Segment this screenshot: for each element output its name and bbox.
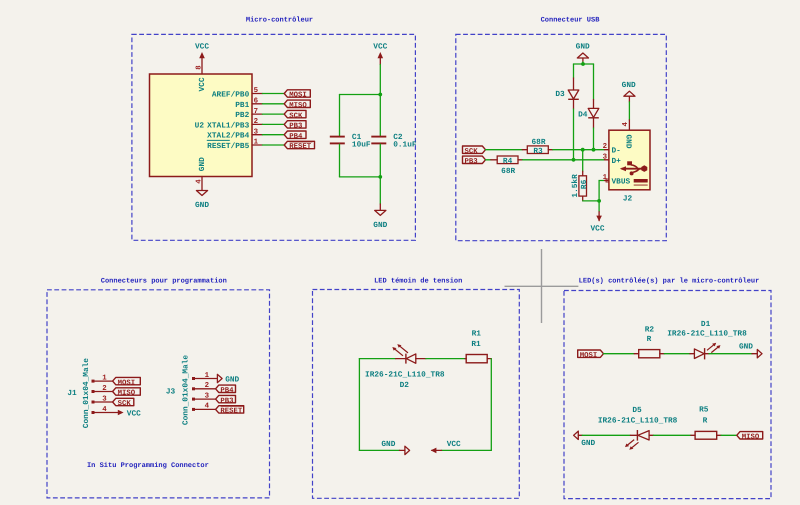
ground below U2	[195, 191, 209, 210]
J1 pin 1	[92, 374, 113, 382]
U2 pin 1 stub	[252, 144, 262, 146]
J1 pin 2	[92, 385, 113, 393]
svg-text:4: 4	[102, 406, 107, 414]
svg-text:4: 4	[622, 122, 630, 127]
wire right vertical	[490, 359, 492, 451]
svg-text:Conn_01x04_Male: Conn_01x04_Male	[181, 355, 190, 426]
wire R6 top	[582, 150, 584, 172]
svg-text:3: 3	[102, 395, 107, 403]
resistor R1	[465, 355, 491, 363]
svg-text:GND: GND	[624, 134, 633, 148]
J3 pin 2	[192, 382, 216, 390]
wire stub gnd	[582, 62, 584, 64]
wire C2 bottom	[379, 144, 381, 177]
svg-text:PB1: PB1	[235, 101, 249, 110]
wire bottom right to VCC	[442, 449, 492, 451]
global label MISO (J1)	[113, 388, 141, 398]
svg-text:MOSI: MOSI	[118, 379, 136, 387]
ground top of USB section	[576, 42, 590, 62]
wire GND to J2 pin4	[628, 102, 630, 120]
global label SCK	[463, 146, 486, 156]
section frame: LED(s) contrôlée(s) par le micro-contrôleur	[564, 291, 771, 499]
svg-text:3: 3	[205, 392, 210, 400]
LED D1	[690, 343, 721, 360]
wire C1 bottom	[339, 144, 341, 177]
wire D3 to D+ line	[573, 109, 575, 160]
junction D4/D-	[592, 148, 596, 152]
wire PB3 to R4	[486, 159, 491, 161]
svg-text:J1: J1	[67, 389, 77, 398]
U2 pin 3 stub	[252, 134, 262, 136]
svg-text:VCC: VCC	[447, 440, 461, 449]
wire down to D3	[573, 64, 575, 78]
svg-text:GND: GND	[381, 440, 395, 449]
svg-text:SCK: SCK	[465, 148, 479, 156]
wire D- line	[553, 149, 605, 151]
svg-text:PB3: PB3	[289, 123, 303, 131]
svg-text:AREF/PB0: AREF/PB0	[212, 91, 250, 100]
svg-text:D1: D1	[701, 320, 711, 329]
resistor R3	[522, 138, 552, 156]
global label RESET (J3)	[216, 406, 244, 416]
wire left vertical	[358, 359, 360, 451]
wire pin2 to PB3	[262, 123, 284, 125]
J1 pin 3	[92, 395, 113, 403]
J2 pin 4 stub	[628, 120, 630, 130]
svg-text:68R: 68R	[501, 167, 515, 176]
svg-text:U2: U2	[195, 121, 205, 130]
section frame: Connecteurs pour programmation	[47, 290, 270, 498]
global label PB3 (J3)	[216, 395, 236, 405]
wire SCK to R3	[486, 149, 523, 151]
resistor R2	[634, 350, 664, 358]
svg-text:4: 4	[196, 179, 204, 184]
wire pin7 to SCK	[262, 113, 284, 115]
junction at VCC/C2	[378, 93, 382, 97]
J1 pin 4	[92, 406, 121, 414]
svg-text:MOSI: MOSI	[289, 92, 307, 100]
U2 pin 8 stub	[201, 59, 203, 75]
svg-text:D3: D3	[555, 90, 565, 99]
junction at GND tee	[581, 62, 585, 66]
wire down to D4	[593, 64, 595, 100]
wire C1 top	[339, 95, 341, 136]
svg-text:Connecteurs pour programmation: Connecteurs pour programmation	[101, 277, 227, 286]
wire top left to D2	[359, 358, 395, 360]
global label PB4	[284, 131, 306, 141]
power VCC above U2	[195, 42, 209, 58]
global label SCK (J1)	[113, 398, 134, 408]
resistor R4	[491, 156, 523, 176]
U2 pin 6 stub	[252, 103, 262, 105]
global label PB4 (J3)	[216, 385, 236, 395]
svg-text:IR26-21C_L110_TR8: IR26-21C_L110_TR8	[598, 416, 678, 425]
ground bottom (triangle right)	[381, 440, 409, 454]
ground above J2	[622, 81, 636, 102]
U2 pin 2 stub	[252, 123, 262, 125]
svg-text:7: 7	[254, 108, 258, 116]
svg-text:MISO: MISO	[118, 390, 136, 398]
U2 pin name RESET/PB5 with overline	[207, 140, 250, 151]
wire MOSI to R2	[604, 353, 635, 355]
svg-text:3: 3	[603, 153, 608, 161]
svg-text:PB3: PB3	[220, 397, 234, 405]
svg-text:2: 2	[205, 382, 209, 390]
svg-text:R3: R3	[533, 147, 543, 156]
svg-text:6: 6	[254, 98, 259, 106]
junction at C2 bottom	[378, 175, 382, 179]
global label PB3	[463, 156, 486, 166]
svg-text:XTAL1/PB3: XTAL1/PB3	[207, 121, 249, 130]
ground at J3 pin 1 (triangle right)	[217, 374, 239, 384]
svg-text:PB2: PB2	[235, 111, 249, 120]
wire D+ line	[523, 159, 605, 161]
wire D2 to R1	[426, 358, 465, 360]
J3 pin 3	[192, 392, 216, 400]
svg-text:GND: GND	[225, 375, 239, 384]
J2 pin 3 stub	[605, 159, 609, 161]
svg-text:2: 2	[254, 118, 258, 126]
svg-text:VCC: VCC	[198, 77, 207, 91]
J2 pin 2 stub	[605, 149, 609, 151]
svg-text:VBUS: VBUS	[612, 178, 631, 187]
wire pin5 to MOSI	[262, 93, 284, 95]
svg-text:GND: GND	[622, 81, 636, 90]
wire C2 top	[379, 95, 381, 136]
svg-text:GND: GND	[373, 221, 387, 230]
svg-text:IR26-21C_L110_TR8: IR26-21C_L110_TR8	[667, 330, 747, 339]
J2 USB icon	[620, 161, 648, 185]
power VCC at J1 pin 4 (arrow right)	[118, 409, 141, 418]
svg-text:R4: R4	[503, 157, 513, 166]
J2 pin 1 stub with square	[605, 179, 610, 182]
svg-text:RESET/PB5: RESET/PB5	[207, 142, 249, 151]
svg-text:2: 2	[603, 143, 607, 151]
svg-text:0.1uF: 0.1uF	[393, 141, 417, 150]
wire bottom between C1 and C2	[340, 176, 381, 178]
svg-text:1: 1	[102, 374, 107, 382]
U2 pin 4 stub	[201, 177, 203, 191]
svg-text:R1: R1	[472, 330, 482, 339]
wire bottom left to GND	[359, 449, 399, 451]
svg-text:1.5kR: 1.5kR	[571, 174, 580, 198]
svg-text:C2: C2	[393, 133, 403, 142]
svg-text:1: 1	[254, 139, 259, 147]
svg-text:R1: R1	[471, 340, 481, 349]
svg-text:D2: D2	[400, 381, 410, 390]
svg-text:PB4: PB4	[220, 387, 234, 395]
svg-text:GND: GND	[581, 439, 595, 448]
svg-text:MOSI: MOSI	[580, 352, 598, 360]
svg-text:PB3: PB3	[465, 158, 479, 166]
LED D5	[625, 430, 653, 450]
svg-text:10uF: 10uF	[352, 141, 371, 150]
svg-text:IR26-21C_L110_TR8: IR26-21C_L110_TR8	[365, 371, 445, 380]
global label MOSI	[284, 90, 310, 100]
U2 pin 5 stub	[252, 93, 262, 95]
svg-text:D+: D+	[612, 157, 622, 166]
svg-text:VCC: VCC	[127, 409, 141, 418]
wire top between C1 and C2	[340, 94, 381, 96]
svg-text:D4: D4	[578, 111, 588, 120]
crop mark cross (gray)	[505, 249, 579, 323]
svg-text:R6: R6	[580, 179, 589, 189]
svg-text:VCC: VCC	[195, 42, 209, 51]
wire D4 to D- line	[593, 128, 595, 150]
svg-text:5: 5	[254, 87, 259, 95]
svg-text:R2: R2	[645, 326, 655, 335]
svg-text:J3: J3	[166, 388, 176, 397]
svg-text:GND: GND	[739, 343, 753, 352]
ground below caps	[373, 204, 387, 230]
global label MOSI (J1)	[113, 377, 141, 387]
svg-text:Micro-contrôleur: Micro-contrôleur	[246, 16, 313, 25]
global label SCK	[284, 110, 306, 120]
svg-text:LED(s) contrôlée(s) par le mic: LED(s) contrôlée(s) par le micro-contrôl…	[579, 277, 760, 286]
global label MISO (row 2)	[737, 432, 763, 442]
junction D- to R6	[581, 148, 585, 152]
junction D3/D+	[572, 158, 576, 162]
wire pin1 to RESET	[262, 144, 284, 146]
svg-text:2: 2	[102, 385, 106, 393]
svg-text:SCK: SCK	[118, 400, 132, 408]
ground right (triangle right)	[739, 343, 762, 358]
svg-text:R5: R5	[699, 406, 709, 415]
resistor R6 1.5kR (vertical)	[571, 171, 589, 201]
svg-text:C1: C1	[352, 133, 362, 142]
power VCC bottom (arrow down)	[590, 212, 604, 234]
svg-text:GND: GND	[195, 201, 209, 210]
svg-text:1: 1	[603, 174, 608, 182]
global label PB3	[284, 121, 306, 131]
svg-text:RESET: RESET	[289, 143, 312, 151]
power VCC above C2	[373, 42, 387, 64]
U2 pin 7 stub	[252, 113, 262, 115]
svg-text:LED témoin de tension: LED témoin de tension	[374, 277, 462, 286]
svg-text:D5: D5	[632, 406, 642, 415]
capacitor C1	[330, 133, 371, 150]
J3 pin 4	[192, 403, 216, 411]
wire R2 to D1	[664, 353, 690, 355]
capacitor C2	[371, 133, 417, 150]
svg-text:GND: GND	[198, 157, 207, 171]
svg-text:J2: J2	[623, 195, 633, 204]
global label RESET	[284, 141, 314, 151]
J3 pin 1	[192, 372, 217, 380]
svg-text:VCC: VCC	[373, 42, 387, 51]
wire GND tee	[574, 63, 594, 65]
wire D5 to R5	[653, 434, 691, 436]
global label MOSI (row 1)	[578, 350, 604, 360]
resistor R5	[691, 431, 721, 439]
svg-text:D-: D-	[612, 147, 621, 156]
IC U2 body	[150, 74, 253, 177]
LED D2	[392, 344, 426, 364]
svg-text:PB4: PB4	[289, 133, 303, 141]
svg-text:VCC: VCC	[590, 225, 604, 234]
wire pin6 to MISO	[262, 103, 284, 105]
svg-text:MISO: MISO	[289, 102, 307, 110]
wire junction down to VCC	[598, 201, 600, 212]
diode D4	[578, 100, 599, 129]
global label MISO	[284, 100, 310, 110]
wire R5 to MISO	[721, 434, 737, 436]
svg-text:Conn_01x04_Male: Conn_01x04_Male	[82, 358, 91, 429]
svg-text:3: 3	[254, 128, 259, 136]
svg-text:GND: GND	[576, 42, 590, 51]
section frame: Micro-contrôleur	[132, 34, 416, 240]
junction VBUS/VCC	[597, 199, 601, 203]
section frame: Connecteur USB	[456, 34, 667, 240]
wire junction up to VBUS pin	[599, 181, 604, 201]
svg-text:8: 8	[195, 65, 203, 70]
svg-text:RESET: RESET	[220, 408, 243, 416]
power VCC bottom (arrow left)	[431, 440, 461, 453]
svg-text:R: R	[647, 335, 652, 344]
diode D3	[555, 78, 578, 109]
wire to GND below caps	[379, 177, 381, 204]
svg-text:In Situ Programming Connector: In Situ Programming Connector	[87, 461, 209, 470]
svg-text:1: 1	[205, 372, 210, 380]
ground left row 2 (triangle left)	[574, 431, 596, 448]
svg-text:SCK: SCK	[289, 112, 303, 120]
svg-text:R: R	[703, 416, 708, 425]
svg-text:MISO: MISO	[742, 434, 760, 442]
wire R6 bottom to junction	[583, 200, 599, 202]
USB connector J2 body	[609, 130, 650, 190]
svg-text:XTAL2/PB4: XTAL2/PB4	[207, 132, 249, 141]
wire GND to D5	[582, 434, 630, 436]
section frame: LED témoin de tension	[313, 290, 520, 499]
wire VCC down to junction	[379, 65, 381, 95]
wire pin3 to PB4	[262, 134, 284, 136]
svg-text:68R: 68R	[531, 138, 545, 147]
svg-text:Connecteur USB: Connecteur USB	[541, 17, 601, 25]
wire D1 to GND	[709, 353, 752, 355]
svg-text:4: 4	[205, 403, 210, 411]
